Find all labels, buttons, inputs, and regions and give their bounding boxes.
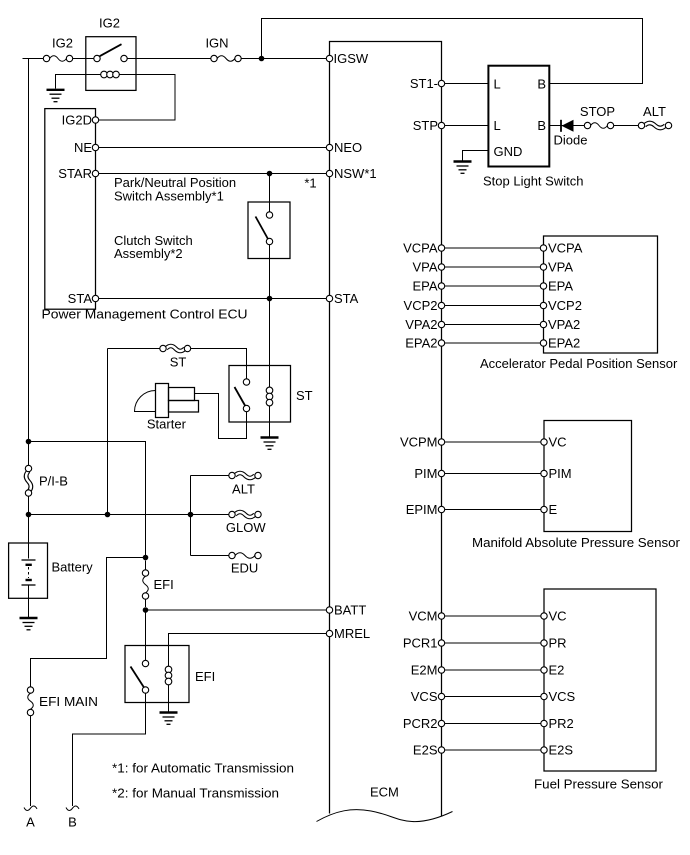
diode (561, 120, 574, 132)
svg-text:NEO: NEO (334, 140, 362, 155)
svg-text:Manifold Absolute Pressure Sen: Manifold Absolute Pressure Sensor (472, 535, 681, 550)
svg-text:VCP2: VCP2 (404, 298, 438, 313)
pin PIM ECM (438, 470, 444, 476)
pin PCR1 ECM (438, 640, 444, 646)
node junction battery feed (26, 439, 32, 445)
svg-text:Accelerator Pedal Position Sen: Accelerator Pedal Position Sensor (480, 356, 678, 371)
Stop Light Switch box (488, 66, 549, 167)
wire park/neutral switch to STA wire (269, 245, 271, 299)
relay ST switch contacts (243, 379, 249, 385)
pin STAR (92, 170, 98, 176)
svg-text:E2S: E2S (549, 743, 574, 758)
wire ST fuse rail (107, 349, 109, 515)
wire Stop Light Switch B to diode (549, 125, 584, 127)
pin VCS ECM (438, 693, 444, 699)
wire fuse EFI MAIN to connector A (30, 716, 32, 806)
svg-text:B: B (537, 76, 546, 91)
svg-text:ECM: ECM (370, 785, 399, 800)
svg-text:NSW*1: NSW*1 (334, 166, 377, 181)
pin VCPA sensor (540, 245, 546, 251)
wire pin VPA (445, 266, 541, 268)
svg-text:IGSW: IGSW (334, 51, 369, 66)
wire pin EPA2 (445, 342, 541, 344)
pin IGSW (326, 55, 332, 61)
node junction ST rail (105, 512, 111, 518)
node junction NSW branch (267, 171, 273, 177)
pin E2S FPS (541, 747, 547, 753)
pin EPA2 sensor (540, 340, 546, 346)
wire relay IG2 coil to pin IG2D (99, 75, 175, 121)
fuse IG2 (43, 55, 49, 61)
svg-text:STP: STP (413, 118, 438, 133)
svg-text:L: L (494, 118, 501, 133)
wire STA junction to relay ST coil (269, 299, 271, 388)
pin PCR2 ECM (438, 720, 444, 726)
svg-text:E2S: E2S (413, 743, 438, 758)
Manifold Absolute Pressure Sensor box (544, 421, 632, 532)
wire Stop Light Switch GND to ground (463, 151, 489, 161)
svg-text:EPA: EPA (548, 279, 573, 294)
svg-text:VPA: VPA (548, 260, 573, 275)
svg-text:Switch Assembly*1: Switch Assembly*1 (114, 189, 224, 204)
wire pin EPIM (445, 509, 541, 511)
svg-text:EFI MAIN: EFI MAIN (39, 694, 98, 709)
relay ST box (229, 366, 291, 423)
pin VPA2 sensor (540, 321, 546, 327)
wire pin VPA2 (445, 324, 541, 326)
svg-text:Battery: Battery (52, 560, 94, 575)
wire pin E2M (445, 669, 541, 671)
svg-text:STA: STA (334, 291, 359, 306)
fuse STOP (584, 122, 590, 128)
starter solenoid lower rect (169, 401, 199, 413)
wire fusible link ST to relay ST switch (191, 349, 247, 379)
pin VCS FPS (541, 693, 547, 699)
svg-text:PCR2: PCR2 (403, 716, 438, 731)
svg-text:ST: ST (296, 388, 313, 403)
node junction fuse EFI to BATT (143, 607, 149, 613)
wire relay ST switch to starter (195, 394, 247, 439)
relay EFI coil (165, 666, 172, 673)
wire pin VCS (445, 696, 541, 698)
ground below relay ST coil (261, 438, 279, 450)
svg-text:*2: for Manual Transmission: *2: for Manual Transmission (112, 786, 279, 801)
pin STP (438, 122, 444, 128)
pin NSW*1 (326, 170, 332, 176)
relay IG2 switch blade (100, 44, 122, 56)
svg-text:L: L (494, 76, 501, 91)
svg-text:Fuel Pressure Sensor: Fuel Pressure Sensor (534, 777, 664, 792)
svg-text:MREL: MREL (334, 626, 370, 641)
Park/Neutral switch box (248, 202, 290, 259)
svg-text:PR: PR (549, 636, 567, 651)
wire to fusible link ALT (191, 475, 229, 477)
svg-text:ALT: ALT (643, 104, 666, 119)
battery box (9, 543, 48, 598)
wire fuse EFI junction down to relay EFI switch (145, 610, 147, 660)
Accelerator Pedal Position Sensor box (544, 236, 658, 353)
svg-text:EFI: EFI (195, 669, 215, 684)
pin BATT (326, 607, 332, 613)
pin VC FPS (541, 613, 547, 619)
svg-text:VCP2: VCP2 (548, 298, 582, 313)
relay ST switch blade (235, 387, 246, 406)
wire pin ST1- to Stop Light Switch L (445, 83, 489, 85)
wire pin EPA (445, 285, 541, 287)
svg-text:PCR1: PCR1 (403, 636, 438, 651)
svg-text:VCM: VCM (409, 609, 438, 624)
pin IG2D (92, 117, 98, 123)
wire battery junction to EFI rail (29, 442, 146, 558)
svg-text:P/I-B: P/I-B (39, 474, 68, 489)
svg-text:E: E (549, 502, 558, 517)
svg-text:GND: GND (494, 144, 523, 159)
wire pin STA to pin STA ECM (99, 298, 327, 300)
park/neutral switch contacts (266, 212, 272, 218)
svg-text:VPA2: VPA2 (548, 317, 580, 332)
relay IG2 box (86, 37, 136, 91)
svg-text:IG2: IG2 (99, 16, 120, 31)
wire pin E2S (445, 749, 541, 751)
node junction ALT/EDU branch (188, 512, 194, 518)
node junction STA branch (267, 296, 273, 302)
wire relay EFI switch to connector B (73, 693, 146, 806)
Fuel Pressure Sensor box (544, 589, 656, 771)
relay ST coil (266, 387, 273, 394)
svg-text:Stop Light Switch: Stop Light Switch (483, 174, 583, 189)
pin VC MAP sensor (541, 439, 547, 445)
svg-text:B: B (537, 118, 546, 133)
wire fuse STOP to fusible link ALT (614, 125, 639, 127)
wire pin STP to Stop Light Switch L (445, 125, 489, 127)
wire pin MREL to relay EFI coil (169, 634, 327, 667)
pin VCM ECM (438, 613, 444, 619)
svg-text:VCPM: VCPM (400, 435, 438, 450)
connector mark A (24, 806, 37, 810)
svg-text:VPA: VPA (412, 260, 437, 275)
svg-text:Assembly*2: Assembly*2 (114, 246, 183, 261)
wire fuse IG2 to relay IG2 switch (73, 58, 95, 60)
pin EPA2 ECM (438, 340, 444, 346)
wire pin PCR2 (445, 723, 541, 725)
pin PIM MAP sensor (541, 470, 547, 476)
svg-text:ALT: ALT (232, 481, 255, 496)
wire pin STAR to pin NSW (99, 173, 327, 175)
svg-text:*1: for Automatic Transmission: *1: for Automatic Transmission (112, 761, 294, 776)
wire fuse IGN to pin IGSW (241, 58, 326, 60)
node junction P/I-B to fuse row (26, 512, 32, 518)
wire pin VCM (445, 615, 541, 617)
ground below relay EFI (160, 713, 178, 725)
wire EFI MAIN branch (31, 558, 146, 687)
park/neutral switch blade (256, 217, 269, 240)
wire ST fuse feed (108, 348, 160, 350)
svg-text:VCS: VCS (411, 689, 438, 704)
svg-text:*1: *1 (304, 175, 316, 190)
starter body tall rect (156, 384, 169, 418)
svg-text:VCS: VCS (549, 689, 576, 704)
pin VCP2 sensor (540, 302, 546, 308)
ground below relay IG2 (47, 90, 65, 102)
svg-text:E2: E2 (549, 663, 565, 678)
pin VPA2 ECM (438, 321, 444, 327)
battery cell symbol (22, 560, 36, 617)
svg-text:PIM: PIM (414, 466, 437, 481)
wire pin VCP2 (445, 305, 541, 307)
ground below battery (20, 618, 38, 630)
starter motor upper rect (169, 388, 195, 401)
pin NE (92, 144, 98, 150)
svg-text:Diode: Diode (554, 133, 588, 148)
svg-text:B: B (68, 815, 77, 830)
pin E MAP sensor (541, 506, 547, 512)
wire top-left feed to fuse IG2 (23, 58, 44, 60)
fusible link ALT right (645, 123, 666, 128)
svg-text:VC: VC (549, 609, 567, 624)
svg-text:EPA2: EPA2 (548, 336, 580, 351)
fusible link GLOW (235, 512, 255, 517)
pin VCPM ECM (438, 439, 444, 445)
svg-text:IGN: IGN (205, 36, 228, 51)
svg-text:VCPA: VCPA (548, 241, 583, 256)
pin VCP2 ECM (438, 302, 444, 308)
pin EPA sensor (540, 283, 546, 289)
starter flange (135, 391, 156, 412)
wire pin PCR1 (445, 642, 541, 644)
svg-text:BATT: BATT (334, 603, 366, 618)
wire relay ST coil to ground (269, 406, 271, 437)
pin MREL (326, 630, 332, 636)
wire fuse EFI to pin BATT (146, 609, 327, 611)
svg-text:EPIM: EPIM (406, 502, 438, 517)
svg-text:EPA2: EPA2 (405, 336, 437, 351)
pin ST1- (438, 80, 444, 86)
svg-text:PIM: PIM (549, 466, 572, 481)
svg-text:VPA2: VPA2 (405, 317, 437, 332)
svg-text:Power Management Control ECU: Power Management Control ECU (42, 307, 248, 322)
pin EPA ECM (438, 283, 444, 289)
svg-text:E2M: E2M (411, 663, 438, 678)
ground below Stop Light Switch (454, 162, 472, 174)
svg-text:EDU: EDU (231, 561, 258, 576)
node junction EFI / EFI MAIN split (143, 555, 149, 561)
relay EFI switch contacts (142, 660, 148, 666)
wire relay IG2 switch to fuse IGN (127, 58, 211, 60)
wire bypass to Stop Light Switch B (262, 19, 643, 84)
fuse IGN (211, 55, 217, 61)
fusible link ALT (235, 473, 255, 478)
connector mark B (66, 806, 79, 810)
wire pin VCPM (445, 441, 541, 443)
wire junction to park/neutral switch (269, 174, 271, 212)
pin E2M ECM (438, 667, 444, 673)
relay EFI switch blade (131, 667, 145, 688)
svg-text:NE: NE (74, 140, 92, 155)
wire ALT/EDU branch vertical (190, 476, 192, 556)
svg-text:STOP: STOP (580, 104, 615, 119)
pin NEO (326, 144, 332, 150)
wire pin PIM (445, 473, 541, 475)
pin PR2 FPS (541, 720, 547, 726)
relay IG2 switch contacts (94, 55, 100, 61)
svg-text:VC: VC (549, 435, 567, 450)
pin VPA ECM (438, 264, 444, 270)
ECM box outline (330, 42, 442, 817)
svg-text:EFI: EFI (154, 577, 174, 592)
fuse EFI MAIN (27, 687, 33, 693)
pin E2 FPS (541, 667, 547, 673)
node junction IGN/IGSW (259, 56, 265, 62)
pin STA PMC (92, 295, 98, 301)
pin VCPA ECM (438, 245, 444, 251)
svg-text:IG2: IG2 (52, 36, 73, 51)
relay EFI box (125, 646, 189, 703)
svg-text:STAR: STAR (58, 166, 92, 181)
wire fuse row horizontal (29, 514, 229, 516)
pin PR FPS (541, 640, 547, 646)
fuse EFI (142, 570, 148, 576)
svg-text:VCPA: VCPA (403, 241, 438, 256)
wire to fuse EDU (191, 555, 229, 557)
svg-text:Starter: Starter (147, 417, 187, 432)
svg-text:A: A (26, 815, 35, 830)
svg-text:IG2D: IG2D (62, 113, 92, 128)
wire relay EFI coil to ground (168, 685, 170, 712)
fusible link ST (166, 346, 185, 351)
svg-text:ST: ST (170, 355, 187, 370)
left rail from fuse IG2 down to battery (28, 59, 30, 559)
relay IG2 coil (101, 71, 108, 78)
fusible link P/I-B (26, 471, 31, 492)
wire pin NE to pin NEO (99, 147, 327, 149)
wire relay IG2 coil to ground (56, 75, 101, 89)
svg-text:ST1-: ST1- (410, 76, 438, 91)
ECM torn wavy bottom edge (317, 810, 453, 822)
svg-text:GLOW: GLOW (226, 520, 266, 535)
svg-text:STA: STA (68, 291, 93, 306)
Power Management Control ECU box (45, 109, 96, 310)
pin VPA sensor (540, 264, 546, 270)
fuse EDU (229, 552, 235, 558)
svg-text:EPA: EPA (412, 279, 437, 294)
pin EPIM ECM (438, 506, 444, 512)
wire pin VCPA (445, 247, 541, 249)
pin STA ECM (326, 295, 332, 301)
svg-text:PR2: PR2 (549, 716, 574, 731)
pin E2S ECM (438, 747, 444, 753)
